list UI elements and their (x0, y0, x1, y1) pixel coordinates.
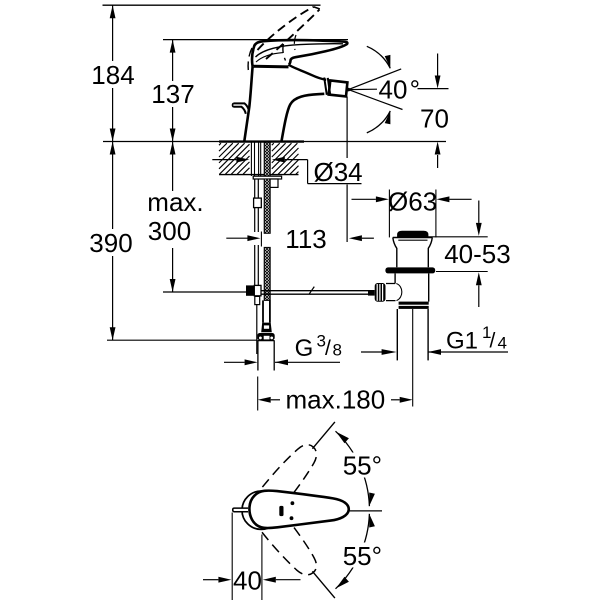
dimension max. 300 (147, 142, 246, 293)
svg-text:390: 390 (89, 228, 132, 258)
svg-text:max.: max. (147, 187, 203, 217)
plan: cartridge cap circle (242, 491, 280, 529)
dimension 390 (89, 142, 257, 341)
hose outer below (262, 300, 264, 322)
hose union (254, 198, 262, 208)
waste flange (393, 237, 433, 239)
svg-text:300: 300 (148, 216, 191, 246)
dimension 184 (91, 5, 134, 141)
rod guide below clamp (255, 296, 260, 304)
svg-text:55°: 55° (343, 450, 382, 480)
top reference line (handle raised height) (103, 4, 321, 6)
lever inner contour (256, 44, 344, 57)
dimension diameter 34 (212, 159, 236, 161)
svg-text:/: / (490, 330, 496, 353)
390 bottom reference line (107, 339, 258, 341)
svg-text:137: 137 (151, 79, 194, 109)
svg-text:Ø63: Ø63 (388, 187, 437, 217)
aerator joint ring (324, 78, 330, 95)
max300 bottom reference line (163, 291, 246, 293)
plan: pull-rod stub (233, 508, 248, 512)
svg-text:113: 113 (285, 224, 326, 254)
svg-text:G: G (295, 335, 314, 362)
threaded rod (hatched) mid (264, 179, 270, 233)
waste plug cap (398, 231, 428, 237)
mounting shank in hole (250, 142, 252, 176)
plan: 55deg labels (341, 453, 383, 478)
svg-text:max.180: max.180 (286, 385, 386, 415)
drain pull rod (left of body) (234, 103, 249, 113)
svg-text:Ø34: Ø34 (314, 157, 363, 187)
dimension 40-53 (478, 201, 480, 223)
flexible hose upper (254, 179, 256, 198)
pull rod wire (256, 305, 258, 354)
40deg arcs with arrows (367, 46, 391, 68)
plan: dimension 40 (231, 513, 233, 600)
dimension diameter 63 (388, 190, 390, 238)
waste seal ring (385, 267, 435, 273)
dimension 70 (437, 54, 439, 76)
label G 3/8 (245, 359, 258, 365)
aerator block (329, 80, 348, 96)
svg-text:70: 70 (420, 104, 449, 134)
(left arrow points right to hose nut) (224, 361, 245, 363)
aerator extension line (346, 97, 348, 159)
lever/body gap (thick) (254, 65, 289, 69)
knurled knob (375, 283, 386, 302)
label G1 1/4 (361, 351, 384, 353)
dimension 137 (151, 40, 194, 142)
fan lines (348, 69, 401, 90)
plan: zero reference line (349, 510, 382, 512)
threaded rod (hatched) upper (264, 142, 270, 176)
deck hatching (219, 143, 250, 174)
deck bottom line (219, 174, 299, 176)
hose nut body (258, 340, 274, 370)
dimension 113 (226, 237, 247, 239)
raised lever (dashed) (248, 7, 320, 70)
rod break tick (309, 287, 314, 294)
spray fan vertex (347, 88, 351, 92)
pop-up rod clamp (246, 285, 254, 295)
svg-text:40-53: 40-53 (444, 239, 511, 269)
lever handle (solid) (252, 40, 347, 66)
horseshoe washer (253, 176, 281, 179)
tee curve inside body (396, 284, 402, 301)
G3/8 hose nut (257, 333, 274, 340)
rod stem into knob (368, 290, 375, 296)
countertop deck line (103, 141, 446, 143)
svg-text:/: / (325, 337, 331, 360)
plan: dashed lever rotated down 55deg (243, 491, 324, 581)
hose taper to nut (261, 323, 272, 333)
svg-text:40: 40 (233, 566, 262, 596)
svg-text:G1: G1 (446, 328, 478, 355)
reference line for 137 (handle top) (163, 39, 348, 41)
tailpipe centerline / max180 extension (412, 309, 414, 407)
svg-text:40 °: 40 ° (379, 75, 421, 105)
dimension max.180 (257, 377, 259, 411)
plan: dashed lever rotated up 55deg (243, 438, 324, 528)
plan: swing arcs 55deg (312, 422, 335, 449)
faucet body outline (244, 67, 252, 142)
plan: lever marks (279, 506, 283, 516)
joint bands (399, 302, 429, 305)
hose lower (254, 208, 256, 232)
tailpipe (396, 309, 398, 360)
plan: solid lever (249, 491, 348, 528)
mounting nut (270, 179, 278, 187)
waste body (394, 273, 396, 283)
pop-up linkage rod (261, 290, 371, 292)
svg-text:184: 184 (91, 60, 134, 90)
svg-text:55°: 55° (343, 541, 382, 571)
spout top edge (289, 65, 327, 80)
svg-text:4: 4 (498, 334, 507, 353)
svg-text:8: 8 (333, 341, 342, 360)
